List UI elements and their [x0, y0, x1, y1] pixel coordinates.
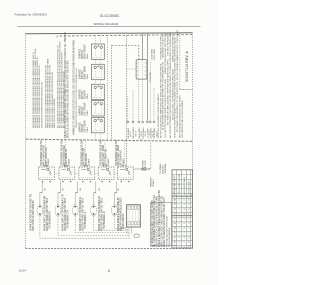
igniter wire labels 5	[117, 187, 125, 231]
igniter switch S3	[72, 205, 78, 216]
label for switch SW2	[78, 66, 89, 80]
svg-text:GLGC36S8C: GLGC36S8C	[100, 14, 121, 18]
svg-text:WIRING DIAGRAM: WIRING DIAGRAM	[93, 22, 118, 26]
surface burner switch SW1 (RIGHT FRONT)	[92, 44, 105, 59]
wire: valve chain V3-V4	[95, 173, 99, 175]
wire: igniter S1 to valve	[40, 181, 43, 204]
frame right border (dotted)	[192, 33, 194, 248]
table second separator	[172, 215, 193, 217]
svg-text:22A 5: 22A 5	[86, 109, 89, 115]
wire: terminal drop RD	[138, 79, 140, 123]
svg-text:MOD FEED: MOD FEED	[145, 160, 147, 171]
igniter wire labels 1	[44, 187, 52, 231]
svg-text:14: 14	[179, 232, 181, 234]
wire: terminal drop BR	[153, 88, 155, 123]
surface burner switch SW3 (CENTER)	[92, 84, 105, 99]
part number box 310247112 REV A	[180, 33, 193, 90]
top burner valve V4 (LEFT FRONT)	[98, 167, 114, 182]
label for switch SW3	[78, 89, 89, 100]
svg-text:SEE NOTES ABOVE: SEE NOTES ABOVE	[168, 227, 171, 247]
svg-text:CONN 5: CONN 5	[153, 178, 155, 187]
svg-text:N: N	[56, 34, 58, 38]
svg-text:TOP BURNER CTR: TOP BURNER CTR	[68, 209, 70, 229]
svg-text:GAUGE AWG TABLE: GAUGE AWG TABLE	[183, 176, 186, 195]
svg-text:14: 14	[179, 222, 181, 224]
svg-text:WH 22: WH 22	[135, 130, 137, 137]
igniter switch S1	[37, 205, 43, 216]
label for valve V4	[100, 140, 110, 167]
wire: bus to connector left	[127, 68, 137, 70]
wire: bus drop to valve V3	[85, 140, 87, 167]
svg-text:Publication No. 5995439919: Publication No. 5995439919	[15, 12, 48, 16]
igniter switch S2	[55, 205, 61, 216]
wire: module to ground lug	[131, 227, 133, 234]
igniter wire labels 3	[79, 187, 87, 231]
svg-text:22A 5: 22A 5	[86, 93, 89, 99]
top burner valve V5 (LEFT REAR)	[117, 167, 133, 182]
svg-text:FOR SERVICE CALL LISTED NUMBER: FOR SERVICE CALL LISTED NUMBER	[181, 100, 184, 138]
svg-text:TERMINAL: TERMINAL	[164, 163, 167, 174]
label for valve V3	[80, 140, 90, 167]
label for valve V1	[40, 140, 50, 167]
wire: igniter S4 to spark module bus	[94, 216, 126, 230]
label for valve V2	[60, 140, 70, 167]
wire: igniter S3 to spark module bus	[75, 216, 127, 233]
svg-text:22 AWG: 22 AWG	[47, 158, 50, 166]
wire: bus at x126	[126, 36, 128, 167]
svg-text:22 AWG: 22 AWG	[68, 158, 71, 166]
svg-text:22A 5: 22A 5	[86, 126, 89, 132]
wire color code legend table	[172, 170, 193, 248]
wire: drop to connector pin	[142, 33, 144, 59]
frame top border	[26, 33, 193, 34]
svg-text:N2: N2	[189, 236, 191, 238]
igniter wire labels 4	[98, 187, 106, 231]
frame left border (dotted)	[25, 33, 27, 248]
wire: terminal drop WH	[132, 90, 134, 123]
svg-text:N WH FEED: N WH FEED	[154, 48, 156, 60]
wire: bus drop to valve V2	[65, 140, 67, 167]
label for switch SW1	[78, 44, 89, 59]
wire: igniter S2 to spark module bus	[58, 216, 128, 236]
svg-text:FEED WIRE BK: FEED WIRE BK	[123, 213, 125, 229]
wire: drop to terminal	[147, 34, 149, 121]
svg-text:14: 14	[179, 208, 181, 210]
notes block box	[150, 202, 171, 246]
svg-text:14: 14	[179, 241, 181, 243]
wire: valve chain V1-V2	[54, 173, 59, 175]
svg-text:22A 5: 22A 5	[86, 53, 89, 59]
svg-text:CIRCUIT ID LIST: CIRCUIT ID LIST	[188, 180, 190, 196]
svg-text:DISCONNECT POWER BEFORE SERVIC: DISCONNECT POWER BEFORE SERVICING UN	[41, 81, 43, 128]
svg-text:L1: L1	[189, 232, 191, 234]
svg-text:GRN: GRN	[121, 226, 123, 231]
wire: igniter S4 to valve	[94, 181, 97, 204]
wire: terminal drop GY	[146, 121, 148, 123]
svg-text:6: 6	[108, 269, 110, 273]
wire: bus drop to plug	[150, 143, 152, 169]
wire: bus at x111	[111, 45, 113, 141]
wire: igniter S2 to valve	[58, 181, 61, 204]
igniter wire labels 2	[62, 187, 70, 231]
svg-text:11/04: 11/04	[18, 268, 26, 272]
surface burner switch SW5 (LEFT REAR)	[92, 117, 105, 132]
wire: valve V5 to spark module label (plug)	[133, 168, 150, 170]
svg-text:TOP BURNER LF: TOP BURNER LF	[85, 211, 87, 229]
ground lug ellipse	[134, 234, 139, 238]
wire: bus drop to valve V4	[104, 140, 106, 167]
wire: igniter S3 to valve	[75, 181, 78, 204]
label for switch SW4	[78, 102, 89, 116]
svg-text:TOP BURNER LR: TOP BURNER LR	[104, 211, 106, 229]
svg-text:REPLACE ALL WIRES WITH SAME GA: REPLACE ALL WIRES WITH SAME GAUGE AND IN…	[67, 60, 70, 138]
wire: bus drop to valve V1	[44, 139, 46, 167]
wire: main horizontal bus	[26, 139, 192, 141]
igniter switch S4	[91, 205, 97, 216]
wire: valve chain V4-V5	[114, 173, 117, 175]
svg-text:22 AWG: 22 AWG	[107, 158, 110, 166]
svg-text:14: 14	[179, 245, 181, 247]
surface burner switch SW4 (LEFT FRONT)	[92, 101, 105, 116]
svg-text:14: 14	[179, 217, 181, 219]
surface burner switch SW2 (RIGHT REAR)	[92, 64, 105, 79]
wire: terminal drop OR	[142, 79, 144, 123]
wire: bus at x107	[107, 37, 109, 141]
svg-text:CODE CHART LEGEND: CODE CHART LEGEND	[178, 173, 181, 195]
spark module SM1	[127, 205, 141, 227]
svg-text:14: 14	[179, 213, 181, 215]
svg-text:L1: L1	[184, 245, 186, 247]
svg-text:22 AWG: 22 AWG	[88, 158, 91, 166]
top burner valve V2 (RIGHT REAR)	[59, 167, 75, 182]
svg-text:REFER TO SERVICE DATA SHEET FO: REFER TO SERVICE DATA SHEET FOR ALL TEST	[163, 197, 166, 247]
svg-text:310247112 REV. A: 310247112 REV. A	[185, 51, 189, 82]
wire: bus drop to valve V5	[123, 140, 125, 167]
table header separator	[172, 195, 193, 197]
wire: switch stack vertical buses	[94, 36, 96, 140]
svg-text:CONNECTOR PLUG BLOCK P3 TO SWI: CONNECTOR PLUG BLOCK P3 TO SWITCH TERMIN…	[75, 67, 78, 128]
neutral bus wire along top	[60, 35, 193, 36]
wire: igniter S1 to spark module bus	[40, 216, 129, 238]
label for valve V5	[115, 140, 127, 167]
wire: igniter S5 to valve	[114, 181, 117, 204]
label for switch SW5	[78, 120, 89, 132]
svg-text:14: 14	[179, 227, 181, 229]
svg-text:14: 14	[179, 199, 181, 201]
svg-text:YL: YL	[174, 179, 176, 181]
top burner valve V1 (RIGHT FRONT)	[39, 167, 55, 182]
wire: valve chain V2-V3	[75, 173, 79, 175]
connector block P1	[136, 60, 147, 80]
top burner valve V3 (CENTER)	[79, 167, 95, 182]
svg-text:14: 14	[179, 236, 181, 238]
svg-text:14: 14	[179, 203, 181, 205]
svg-text:TOP BURNER RR: TOP BURNER RR	[50, 211, 52, 229]
wire: L1 feed to connector	[112, 46, 139, 60]
header rule line	[18, 26, 201, 28]
svg-text:DO NOT OPERATE RANGE WITHOUT G: DO NOT OPERATE RANGE WITHOUT GROUND WI	[176, 30, 179, 80]
svg-text:22A 5: 22A 5	[86, 73, 89, 79]
wire: terminal drop BU	[149, 62, 151, 123]
wire: terminal drop BK	[127, 97, 129, 123]
wire: igniter S5 to spark module bus	[114, 216, 124, 229]
svg-text:YL: YL	[184, 203, 186, 205]
svg-text:SWITCH RF 22 AWG WIRE BK: SWITCH RF 22 AWG WIRE BK	[32, 200, 35, 231]
svg-text:TO CLOCK: TO CLOCK	[150, 71, 152, 82]
frame bottom border (dashed)	[26, 248, 193, 250]
svg-text:WIRE COLOR CODES SHOWN: WIRE COLOR CODES SHOWN	[54, 98, 56, 128]
igniter switch S5	[112, 205, 118, 216]
svg-text:22 AWG: 22 AWG	[122, 158, 125, 166]
